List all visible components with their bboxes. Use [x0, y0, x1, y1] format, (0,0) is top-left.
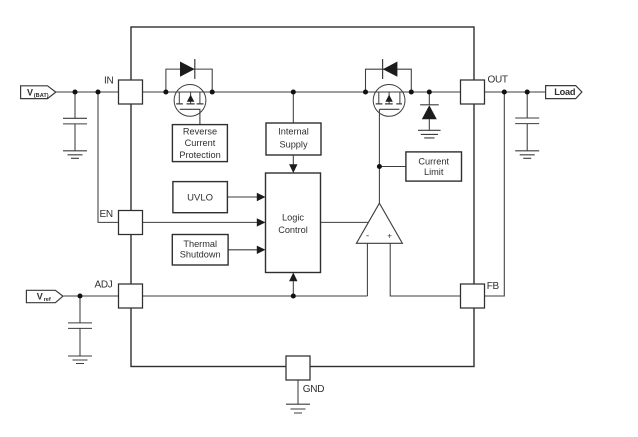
svg-text:(BAT): (BAT)	[34, 93, 49, 99]
svg-text:ref: ref	[44, 297, 51, 303]
svg-text:Internal: Internal	[278, 127, 309, 137]
svg-text:V: V	[27, 87, 33, 97]
svg-text:GND: GND	[303, 384, 324, 395]
svg-text:-: -	[366, 231, 369, 242]
svg-text:FB: FB	[487, 281, 500, 292]
svg-text:ADJ: ADJ	[95, 280, 113, 291]
svg-text:Limit: Limit	[424, 167, 444, 177]
svg-text:Supply: Supply	[279, 139, 307, 149]
svg-text:Load: Load	[554, 87, 575, 97]
svg-text:Control: Control	[278, 225, 308, 235]
svg-text:OUT: OUT	[488, 74, 508, 85]
svg-text:EN: EN	[100, 209, 113, 220]
svg-text:Shutdown: Shutdown	[180, 250, 221, 260]
svg-text:Reverse: Reverse	[183, 127, 217, 137]
svg-text:Current: Current	[418, 156, 449, 166]
svg-text:Current: Current	[185, 138, 216, 148]
svg-text:IN: IN	[104, 75, 113, 86]
svg-text:+: +	[387, 231, 392, 240]
svg-text:Logic: Logic	[282, 212, 304, 222]
svg-text:Thermal: Thermal	[183, 239, 217, 249]
svg-text:Protection: Protection	[179, 150, 220, 160]
svg-text:UVLO: UVLO	[187, 192, 213, 203]
svg-text:V: V	[37, 291, 43, 301]
